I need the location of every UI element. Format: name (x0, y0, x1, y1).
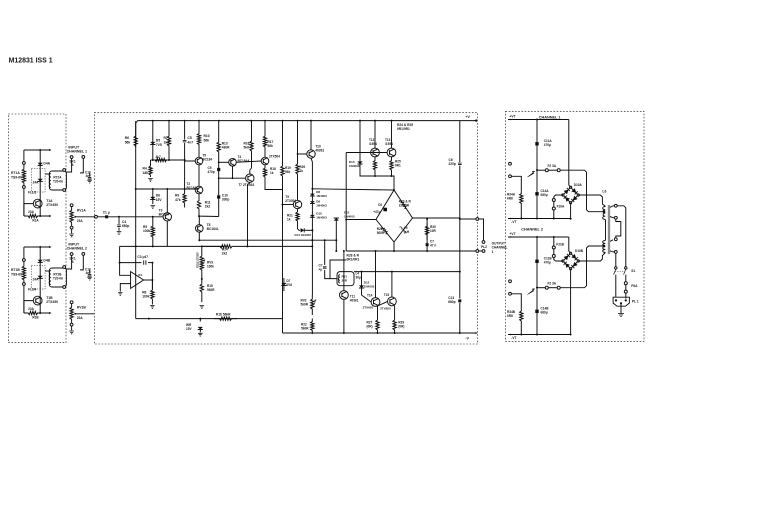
capacitor C5 4n7 (184, 121, 186, 140)
zener D14 15V (199, 319, 201, 322)
wire emitter bottom ch2 (24, 311, 50, 314)
capacitor C16B (89, 270, 91, 274)
svg-text:FL3/4: FL3/4 (28, 288, 36, 292)
wire PL2 pin 2 (479, 250, 482, 252)
wire L6 sec B top stub (610, 240, 613, 242)
node output bottom (459, 332, 461, 334)
wire PL1 earth (620, 305, 622, 314)
svg-text:R3010R: R3010R (430, 225, 436, 233)
node top ch1 (39, 149, 41, 151)
capacitor C16A (89, 173, 91, 177)
wire T11 collector (343, 251, 345, 291)
svg-text:(SELECTED): (SELECTED) (195, 253, 199, 269)
bias diode D10 1N4003 (310, 215, 315, 217)
bias diode D8 1N4003 (310, 194, 315, 196)
pads supply chB (509, 280, 512, 283)
wire sk1B to rt2 (66, 255, 72, 269)
svg-text:4n7: 4n7 (86, 174, 92, 178)
wire left vertical R6 to input node (135, 189, 137, 246)
wire diode branch ch2 (39, 247, 41, 313)
wire emitters rail to bridge top (375, 176, 394, 190)
wire L6 sec A top (610, 206, 615, 208)
wire node to T7 base (219, 177, 246, 179)
wire T14 T15 bases (362, 295, 372, 302)
resistor R27 0R1 (376, 306, 379, 333)
inductor L5 on diamond (399, 227, 406, 234)
wire fuse A down to -VT (553, 210, 555, 219)
svg-text:R29(0R): R29(0R) (398, 321, 404, 329)
wire C5 node down to R9 (184, 160, 186, 189)
pad amp input (95, 215, 98, 218)
pad RT2B top (63, 266, 66, 269)
svg-text:CHANNEL 1: CHANNEL 1 (539, 115, 561, 119)
diode D12 1N4003 (361, 272, 363, 295)
diode D13 1N4003 (360, 121, 375, 176)
wire T7 collector (250, 158, 252, 174)
wire S1 to F6A (625, 275, 627, 282)
capacitor C9 470p (218, 162, 220, 216)
resistor R5 100k (151, 217, 154, 247)
wire emitter bottom ch1 (24, 214, 50, 217)
ground RV1A (71, 229, 73, 233)
wire diamond bottom (393, 242, 395, 251)
svg-text:24A: 24A (33, 278, 39, 282)
svg-text:D4A: D4A (43, 162, 50, 166)
power board dashed outline (506, 111, 645, 341)
pad RT1A upper (23, 162, 26, 165)
svg-text:F10A: F10A (557, 204, 565, 208)
wire -V bottom rail (283, 332, 477, 334)
svg-text:R16 56kR: R16 56kR (216, 313, 231, 317)
transistor T3 BC184 input (163, 213, 171, 221)
svg-text:C3 μ47: C3 μ47 (137, 255, 148, 259)
svg-text:23A: 23A (28, 210, 34, 214)
arrow -V rail end (475, 332, 477, 334)
svg-text:R1756k: R1756k (267, 140, 273, 148)
resistor R20 1k (296, 121, 299, 201)
svg-text:PL 1: PL 1 (632, 299, 639, 303)
amplifier board dashed outline (94, 112, 477, 344)
svg-text:RV1A: RV1A (77, 208, 86, 212)
ground R15 (200, 306, 205, 309)
ground D6 (151, 206, 156, 209)
capacitor C1 input (105, 215, 108, 218)
resistor R15 560R (200, 279, 203, 302)
node R11 bottom (198, 215, 200, 217)
wire T12 T13 base row (346, 152, 387, 154)
wire +VT top chA (508, 119, 569, 121)
wire fl to rt2 ch2 (45, 270, 49, 272)
resistor R24 0R1 (373, 157, 376, 176)
filter FL dashed box ch2 (31, 266, 45, 289)
capacitor C7 47n zobel (426, 223, 428, 251)
ground IC1 +input (118, 293, 123, 296)
svg-text:F21B: F21B (556, 242, 564, 246)
svg-text:23A: 23A (28, 307, 34, 311)
wire non-inverting input (120, 284, 130, 292)
svg-text:PL2: PL2 (481, 245, 487, 249)
resistor R18 1k (263, 165, 266, 183)
wire bridge B bottom down to -VT (570, 269, 572, 335)
transistor T13 MJ2955 (387, 148, 396, 157)
svg-text:T7 2TX543: T7 2TX543 (238, 183, 254, 187)
svg-text:L6: L6 (602, 189, 606, 193)
resistor R26 zig on diamond (382, 227, 388, 234)
wire IC1 output (144, 279, 153, 281)
wire F6A to PL1 (625, 293, 627, 298)
wire T14 T15 collectors up (375, 251, 377, 298)
wire bridge A left to fuse (554, 195, 563, 199)
svg-text:D10B: D10B (575, 249, 584, 253)
svg-text:R28 & R0R1/0R1: R28 & R0R1/0R1 (347, 254, 360, 262)
inductor L4 output box (337, 272, 354, 286)
svg-text:F2 3A: F2 3A (548, 281, 557, 285)
bridge rectifier D10A (563, 187, 578, 202)
pad screen A (82, 156, 85, 159)
svg-text:R1056k: R1056k (204, 134, 210, 142)
capacitor C3 u47 (120, 262, 142, 264)
wire T1B collector (24, 301, 33, 313)
pad RT1B upper (23, 259, 26, 262)
wire T5 base to C5 node (185, 160, 196, 161)
wire T9 base (283, 204, 294, 206)
connector PL1 (613, 297, 629, 306)
wire node row y160 (153, 159, 185, 161)
resistor R14 2k2 (202, 245, 246, 248)
diode D2A (38, 179, 43, 182)
preset RV2 (311, 295, 314, 315)
wire input line C1 (96, 216, 163, 218)
wire T1A collector (24, 204, 33, 216)
op-amp IC1 (131, 272, 144, 289)
transistor T9a (261, 157, 269, 165)
wire T3 emitter down (166, 221, 168, 246)
svg-text:23A: 23A (77, 219, 83, 223)
transistor T11 40361 (340, 291, 349, 300)
transistor T4 BC184A (229, 159, 237, 167)
svg-text:R3126R: R3126R (342, 275, 348, 283)
pad PL2 pin2 (482, 250, 485, 253)
bridge rectifier D10B (563, 253, 578, 268)
svg-text:F2 3A: F2 3A (548, 164, 557, 168)
svg-text:T20-06: T20-06 (53, 180, 63, 184)
wire emitter row y189 to R19 top (282, 190, 284, 205)
potentiometer RV1A (70, 206, 73, 226)
arrow terminal A (49, 149, 51, 151)
svg-text:R165k6: R165k6 (244, 142, 250, 150)
resistor R21 1k below T9 (296, 209, 299, 223)
svg-text:IC1: IC1 (138, 273, 143, 277)
wire T8 emitter to rail (198, 232, 200, 240)
capacitor C14A (535, 192, 538, 195)
wire L4 to output rail (354, 271, 460, 273)
resistor R16 5k6 (250, 121, 253, 158)
wire bias tap to diamond top (312, 189, 394, 190)
wire T14 emitter to T15 base (378, 301, 388, 306)
svg-text:+47μ: +47μ (373, 210, 380, 214)
transistor T1B (33, 296, 42, 305)
junction bias column row (311, 239, 313, 241)
wire T12 T13 collectors to rail (374, 121, 376, 149)
transistor T1A (33, 199, 42, 208)
fuse F21B ch B (553, 246, 555, 258)
svg-text:D4B: D4B (43, 259, 50, 263)
wire C3 to output column (151, 263, 153, 289)
rail x282 long vertical (281, 121, 284, 333)
node bottom ch2 (39, 312, 41, 314)
wire L6 sec A bottom (610, 217, 615, 218)
wire R13 node to T4 base (219, 161, 229, 163)
svg-text:2TX450: 2TX450 (46, 300, 58, 304)
filter FL dashed box ch1 (31, 169, 45, 192)
svg-text:CHANNEL 2: CHANNEL 2 (67, 247, 87, 251)
svg-text:CHANNEL 1: CHANNEL 1 (67, 150, 87, 154)
wire bridge B top from +VT vertical (569, 237, 571, 253)
wire output rail down (459, 219, 461, 299)
wire F21B top (553, 237, 555, 246)
transistor T14 2TX650 (371, 298, 380, 307)
wire secondary left pole (615, 253, 617, 266)
pad output on box edge (476, 218, 479, 221)
fuse F6A (625, 282, 627, 293)
node bottom ch1 (39, 215, 41, 217)
wire +VT top chB (508, 236, 569, 238)
svg-text:4k7: 4k7 (156, 155, 161, 159)
transformer RT2A (49, 171, 66, 190)
test arrow chB (528, 289, 535, 295)
resistor R25 0R1 (390, 157, 393, 176)
fuse F23A (536, 169, 538, 171)
svg-text:2TX504: 2TX504 (269, 155, 280, 159)
wire R34A branch (511, 176, 521, 191)
wire feedback top y246 (120, 245, 224, 247)
wire feedback from R14 to preset (246, 245, 312, 247)
pad RT2B bottom (63, 286, 66, 289)
wire L6 sec B bottom (610, 251, 615, 252)
rail junction dots (152, 120, 154, 122)
wire bridge A right to L6 (578, 195, 605, 207)
capacitor C11A (536, 120, 538, 219)
wire input ch2 top (24, 246, 50, 248)
wire bias row y240 extension (311, 239, 336, 241)
wire feedback lower y319 (136, 318, 283, 320)
svg-text:T20-06: T20-06 (53, 277, 63, 281)
svg-text:C1 μ: C1 μ (103, 211, 110, 215)
ground D14 (198, 333, 203, 336)
diode D4B (38, 260, 43, 263)
node top ch2 (39, 246, 41, 248)
node R6 bottom (135, 188, 137, 190)
wire C10 to T8 node (199, 215, 218, 217)
wire S1 left to PL1 (615, 275, 617, 298)
svg-text:T14: T14 (367, 294, 373, 298)
resistor R23 zig on diamond (401, 201, 407, 209)
svg-text:2TX450: 2TX450 (46, 203, 58, 207)
pad output 2 on box edge (476, 250, 479, 253)
wire bridge B right to L6 (578, 253, 605, 262)
svg-text:D14 1N4003: D14 1N4003 (295, 233, 312, 237)
wire T5 emitter to T4 (198, 165, 200, 186)
pads supply chA (509, 162, 512, 165)
svg-text:-VT: -VT (511, 220, 516, 224)
arrow terminal D (49, 312, 51, 314)
wire ic supply vertical x136 (135, 246, 137, 318)
junction L6 tap A (603, 210, 606, 213)
resistor R29 0R1 (393, 306, 396, 333)
arrow terminal B (49, 215, 51, 217)
capacitor C7a electrolytic (324, 240, 326, 265)
wire bridge B left to fuse (554, 258, 563, 262)
bridge network diamond (376, 190, 413, 242)
wire PL2 pin 1 (479, 219, 484, 240)
transistor T5 (195, 157, 203, 165)
svg-text:24A: 24A (33, 181, 39, 185)
pad SK1B (70, 253, 73, 256)
svg-text:RV1B: RV1B (77, 305, 86, 309)
diode D4A (38, 163, 43, 166)
wiper wire RV1A (74, 216, 96, 218)
transistor T9 2TX504 (293, 200, 301, 208)
svg-text:R1B: R1B (32, 316, 39, 320)
capacitor C6 220p (459, 121, 461, 162)
svg-text:-V: -V (465, 337, 469, 341)
wire T4-T6 base row (236, 161, 261, 162)
wire T10 emitter down bias chain (311, 158, 312, 295)
wire fl to rt2 ch1 (45, 173, 49, 175)
svg-text:D10A: D10A (574, 183, 583, 187)
wire secondary bus right (617, 206, 626, 267)
ground R4 (148, 179, 153, 182)
wire inverting input branch (120, 246, 131, 275)
wire -VT bottom chB (508, 334, 571, 336)
capacitor C8 on diamond (383, 208, 387, 212)
wire T10 collector (310, 121, 312, 150)
wire +V top rail (136, 121, 478, 147)
resistor R4 18k (149, 160, 152, 177)
svg-text:M12831 ISS 1: M12831 ISS 1 (9, 58, 53, 65)
diode D11 1N4003 (335, 220, 337, 240)
wire zobel top (426, 219, 428, 223)
wire diode branch ch1 (39, 150, 41, 216)
resistor R22 560R (311, 319, 314, 334)
wire T3 collector up (166, 189, 168, 213)
pad RT2A top (63, 169, 66, 172)
svg-text:R112k2: R112k2 (205, 201, 211, 209)
wire sk1A to rt2 (66, 158, 72, 172)
arrow terminal C (49, 246, 51, 248)
junction L6 tap B (603, 245, 606, 248)
resistor R34B 6R8 (520, 309, 523, 335)
svg-text:F6A: F6A (631, 284, 638, 288)
svg-text:R1A: R1A (32, 219, 39, 223)
svg-text:CHANNEL 2: CHANNEL 2 (521, 227, 543, 231)
wire output conductor 2 (346, 250, 477, 252)
potentiometer RV1B (70, 303, 73, 323)
svg-text:FL1/2: FL1/2 (28, 191, 36, 195)
resistor R11 2k2 (197, 194, 200, 216)
resistor RT1B (22, 247, 25, 313)
wire -VT bottom chA (508, 218, 571, 220)
pad screen B (82, 253, 85, 256)
ground RV1B (71, 326, 73, 330)
capacitor C11B (536, 237, 538, 335)
capacitor C4 680p (118, 216, 120, 218)
switch S1 (615, 267, 617, 269)
input board dashed outline (8, 114, 66, 343)
wire R34B branch (511, 294, 521, 309)
fuse F10A ch A (553, 199, 555, 211)
wire T10 base (298, 153, 307, 155)
svg-text:T15: T15 (384, 293, 390, 297)
fuse F23B (536, 287, 538, 289)
node output L4 (459, 271, 461, 273)
transistor T12 MJ2955 (371, 148, 380, 157)
pad RT1A lower (23, 186, 26, 189)
resistor R13 430R (217, 121, 220, 163)
node zobel top (426, 218, 428, 220)
wire F23B to L6 tap B (560, 246, 602, 288)
svg-text:-VT: -VT (511, 336, 516, 340)
wire base bus down to driver node (345, 153, 347, 220)
wire input ch1 top (24, 149, 50, 151)
pad RT1B lower (23, 283, 26, 286)
wire screen B (80, 255, 83, 270)
svg-text:+VT: +VT (510, 115, 516, 119)
resistor RT1A (22, 150, 25, 216)
resistor R10 56k (197, 121, 200, 157)
wire bridge A bottom to -VT (570, 203, 572, 219)
svg-text:23A: 23A (77, 316, 83, 320)
transformer RT2B (49, 268, 66, 287)
svg-text:C8: C8 (378, 203, 382, 207)
resistor R16 56k (214, 317, 237, 320)
svg-text:R250R1: R250R1 (395, 160, 401, 168)
resistor R8 100k (151, 280, 154, 305)
svg-text:+V: +V (465, 115, 470, 119)
pad PL2 pin1 (482, 241, 485, 244)
diode D14 horizontal (298, 223, 301, 231)
wire rail y189 (136, 188, 199, 190)
svg-text:S1: S1 (631, 269, 635, 273)
capacitor C13 680p (458, 299, 461, 302)
resistor R7b 4k7 horizontal (153, 158, 169, 161)
resistor R34A 6R8 (520, 191, 523, 218)
ground PL1 (618, 314, 624, 317)
transistor T7 2TX543 (246, 174, 254, 182)
transistor T8 BC184L (198, 216, 200, 225)
svg-text:R1956k: R1956k (285, 166, 291, 174)
wire T8 row y240 (199, 239, 311, 241)
svg-text:2TX650: 2TX650 (380, 307, 391, 311)
diode D7 6V8 (281, 283, 286, 286)
preset RV3 selected (200, 246, 203, 279)
resistor R6 56k (134, 121, 137, 189)
svg-text:R142k2: R142k2 (222, 248, 228, 256)
rail end dot (475, 119, 477, 121)
wire T11 emitter (343, 299, 345, 333)
bias diode D9 1N4003 (310, 201, 315, 203)
wire T4 emitter down (232, 166, 234, 178)
svg-text:R27(0R): R27(0R) (367, 321, 373, 329)
wire F23A to L6 tap A (560, 170, 602, 212)
diode D5 7V5 (152, 121, 154, 160)
svg-text:2TX650: 2TX650 (363, 306, 374, 310)
zener D6 15V (152, 189, 154, 204)
wire L4 left to T11 (330, 260, 346, 279)
svg-text:C7+μ: C7+μ (319, 264, 323, 272)
transistor T10 40361 (307, 150, 315, 158)
wire diamond left to driver (346, 220, 376, 252)
